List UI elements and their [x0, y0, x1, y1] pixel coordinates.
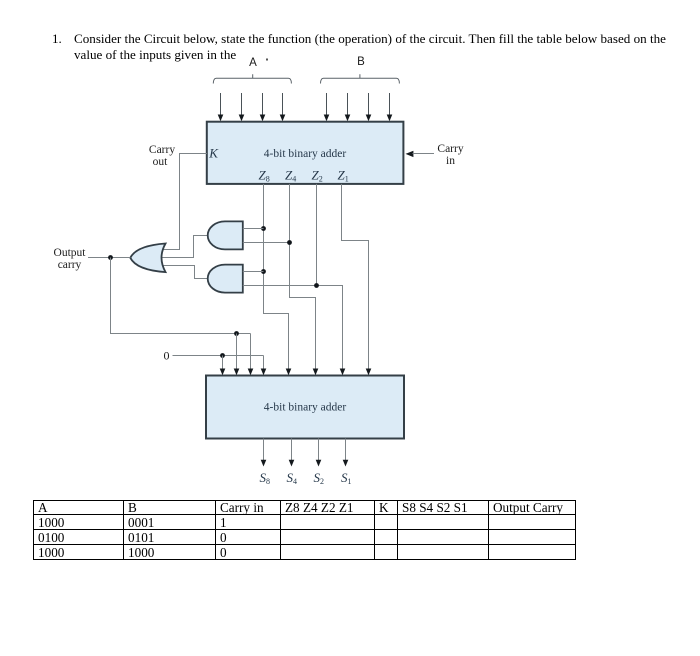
- wire K carry-out from U1 to OR gate: [162, 154, 207, 250]
- junction Z4 to G1: [287, 240, 292, 245]
- and-gate G1 (Z8·Z4): [208, 221, 243, 249]
- svg-text:K: K: [208, 145, 219, 160]
- svg-text:4-bit binary adder: 4-bit binary adder: [264, 402, 347, 414]
- svg-text:B: B: [357, 56, 365, 68]
- svg-text:4-bit binary adder: 4-bit binary adder: [264, 148, 347, 160]
- svg-text:in: in: [446, 155, 455, 167]
- wire OR output to Output carry: [88, 257, 130, 259]
- output arrow S4: [289, 439, 295, 467]
- or-gate G3 (output carry): [130, 244, 165, 273]
- wire feedback drop bit4: [234, 334, 240, 376]
- svg-text:0: 0: [164, 349, 170, 363]
- wire G2 output to OR input: [162, 266, 208, 279]
- junction output carry node: [108, 255, 113, 260]
- wire G2 input a: [243, 271, 264, 273]
- input arrow B bit1: [387, 93, 393, 121]
- problem statement text: [52, 31, 666, 63]
- wire 0 line: [173, 355, 264, 357]
- truth table: [33, 500, 576, 560]
- svg-text:Carry: Carry: [437, 143, 463, 155]
- arrowhead Z4 into U2: [313, 369, 319, 376]
- wire G1 input a: [243, 228, 264, 230]
- arrowhead Z2 into U2: [340, 369, 346, 376]
- adder U2 (bottom 4-bit binary adder): [206, 376, 404, 439]
- output arrow S2: [316, 439, 322, 467]
- svg-text:Carry: Carry: [149, 144, 175, 156]
- input arrow A bit8: [218, 93, 224, 121]
- wire G1 input b: [243, 242, 290, 244]
- brace A: [213, 74, 291, 83]
- wire Z4 vertical from U1: [290, 184, 316, 370]
- output arrow S8: [261, 439, 267, 467]
- svg-text:S1: S1: [341, 470, 352, 486]
- wire 0 drop bit8: [220, 356, 226, 376]
- wire Z8 vertical from U1: [264, 184, 289, 370]
- junction Z2 to G2: [314, 283, 319, 288]
- wire G2 input b through Z2 junction: [243, 286, 343, 370]
- junction Z8 to G1: [261, 226, 266, 231]
- arrowhead Z1 into U2: [366, 369, 372, 376]
- wire Z1 vertical from U1: [342, 184, 369, 370]
- junction Z8 to G2: [261, 269, 266, 274]
- svg-text:out: out: [153, 156, 169, 168]
- adder U1 (top 4-bit binary adder): [207, 122, 404, 184]
- junction 0 to bit8: [220, 353, 225, 358]
- output arrow S1: [343, 439, 349, 467]
- wire G1 output to OR input: [161, 236, 208, 258]
- brace B: [321, 74, 400, 83]
- junction feedback to bit4: [234, 331, 239, 336]
- carry in arrow into U1: [406, 151, 414, 157]
- input arrow B bit4: [345, 93, 351, 121]
- svg-text:S4: S4: [287, 470, 298, 486]
- wire 0 drop bit1: [261, 356, 267, 376]
- stray dot after A: [266, 59, 268, 61]
- input arrow A bit4: [239, 93, 245, 121]
- and-gate G2 (Z8·Z2): [208, 265, 243, 293]
- input arrow B bit8: [324, 93, 330, 121]
- input arrow A bit2: [260, 93, 266, 121]
- svg-text:Output: Output: [54, 247, 87, 259]
- input arrow B bit2: [366, 93, 372, 121]
- svg-text:A: A: [249, 57, 257, 69]
- wire Z2 vertical from U1: [316, 184, 318, 286]
- wire carry in: [413, 153, 435, 155]
- arrowhead Z8 into U2: [286, 369, 292, 376]
- wire output-carry feedback down and right: [111, 258, 251, 334]
- svg-text:S8: S8: [260, 470, 271, 486]
- wire feedback drop bit2: [248, 334, 254, 376]
- svg-text:carry: carry: [58, 259, 82, 271]
- svg-text:S2: S2: [314, 470, 325, 486]
- input arrow A bit1: [280, 93, 286, 121]
